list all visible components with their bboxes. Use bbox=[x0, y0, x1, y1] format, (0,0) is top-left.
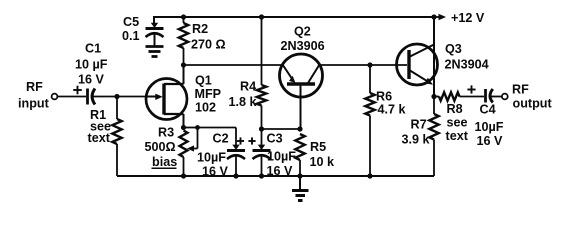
wire C1 to gate node bbox=[92, 96, 147, 98]
svg-text:RF: RF bbox=[512, 83, 529, 97]
resistor R2 270ohm bbox=[179, 14, 226, 65]
node Q2 collector junction bbox=[297, 126, 302, 131]
svg-text:see: see bbox=[447, 116, 468, 130]
svg-text:C5: C5 bbox=[123, 15, 139, 29]
svg-text:output: output bbox=[513, 97, 553, 111]
svg-text:MFP: MFP bbox=[195, 87, 222, 101]
potentiometer R3 500 ohm bias bbox=[145, 125, 200, 176]
wire +12V top rail bbox=[153, 16, 434, 18]
svg-text:1.8 k: 1.8 k bbox=[229, 95, 258, 109]
svg-text:R5: R5 bbox=[310, 140, 326, 154]
svg-text:text: text bbox=[88, 131, 111, 145]
node Q3 collector at rail bbox=[431, 14, 436, 19]
wire junction to Q2 collector column bbox=[262, 128, 301, 130]
svg-text:16 V: 16 V bbox=[78, 73, 105, 87]
svg-text:text: text bbox=[446, 129, 469, 143]
wire input to C1 bbox=[58, 96, 87, 98]
resistor R6 4.7k bbox=[365, 65, 406, 176]
capacitor C3 10uF 16V bbox=[248, 129, 296, 178]
svg-text:0.1: 0.1 bbox=[122, 29, 140, 43]
svg-text:+12 V: +12 V bbox=[451, 11, 485, 25]
node input bias junction bbox=[114, 94, 119, 99]
svg-text:R8: R8 bbox=[447, 102, 463, 116]
wire ground rail bbox=[117, 175, 434, 177]
transistor Q2 2N3906 PNP bbox=[280, 25, 325, 130]
wire drain node to Q2 bbox=[184, 64, 283, 66]
svg-text:10µF: 10µF bbox=[267, 150, 296, 164]
node drain junction bbox=[181, 62, 186, 67]
svg-text:bias: bias bbox=[152, 155, 177, 169]
svg-text:10 k: 10 k bbox=[310, 155, 336, 169]
svg-text:R6: R6 bbox=[376, 90, 392, 104]
svg-text:2N3904: 2N3904 bbox=[445, 58, 489, 72]
svg-text:2N3906: 2N3906 bbox=[281, 39, 325, 53]
node emitter output junction bbox=[431, 94, 436, 99]
svg-text:C4: C4 bbox=[480, 103, 496, 117]
node R6 top junction bbox=[367, 62, 372, 67]
svg-text:10µF: 10µF bbox=[197, 151, 226, 165]
resistor R8 see text bbox=[434, 92, 484, 143]
svg-text:270 Ω: 270 Ω bbox=[191, 38, 226, 52]
svg-text:R4: R4 bbox=[240, 80, 256, 94]
RF input terminal bbox=[18, 80, 57, 111]
ground below C5 bbox=[146, 47, 164, 57]
svg-text:102: 102 bbox=[195, 101, 216, 115]
resistor R7 3.9k bbox=[402, 97, 439, 177]
svg-text:RF: RF bbox=[26, 80, 43, 94]
svg-text:10µF: 10µF bbox=[475, 120, 504, 134]
node R4-C3 junction bbox=[259, 126, 264, 131]
svg-text:input: input bbox=[18, 97, 50, 111]
svg-text:R2: R2 bbox=[192, 22, 208, 36]
svg-text:Q3: Q3 bbox=[445, 42, 462, 56]
svg-text:500Ω: 500Ω bbox=[145, 140, 176, 154]
svg-text:10 µF: 10 µF bbox=[75, 58, 108, 72]
wire Q3 collector/emitter column bbox=[433, 17, 435, 97]
svg-text:3.9 k: 3.9 k bbox=[402, 133, 431, 147]
svg-text:R3: R3 bbox=[158, 126, 174, 140]
capacitor C2 10uF 16V bbox=[197, 128, 245, 179]
ground bbox=[292, 176, 309, 201]
capacitor C1 10uF 16V bbox=[73, 42, 108, 105]
svg-text:C3: C3 bbox=[267, 132, 283, 146]
svg-text:16 V: 16 V bbox=[477, 134, 504, 148]
RF output terminal bbox=[502, 83, 553, 111]
svg-text:C2: C2 bbox=[213, 132, 229, 146]
svg-text:R7: R7 bbox=[411, 118, 427, 132]
svg-text:Q1: Q1 bbox=[195, 74, 212, 88]
node source junction bbox=[181, 125, 186, 130]
svg-text:Q2: Q2 bbox=[294, 25, 311, 39]
resistor R5 10k bbox=[295, 134, 335, 176]
transistor Q3 2N3904 NPN bbox=[397, 42, 489, 85]
resistor R1 see text bbox=[88, 97, 122, 177]
svg-text:4.7 k: 4.7 k bbox=[378, 103, 407, 117]
svg-text:C1: C1 bbox=[85, 42, 101, 56]
transistor Q1 MPF102 JFET bbox=[146, 65, 221, 128]
+12 V supply arrow bbox=[434, 11, 485, 25]
node rail junctions bbox=[181, 173, 373, 178]
wire bias node to C2 bbox=[198, 127, 237, 129]
resistor R4 1.8k bbox=[229, 14, 267, 129]
capacitor C4 10uF 16V bbox=[467, 85, 503, 148]
wire Q2 to Q3 base bbox=[320, 64, 408, 66]
capacitor C5 0.1 bbox=[122, 15, 164, 46]
